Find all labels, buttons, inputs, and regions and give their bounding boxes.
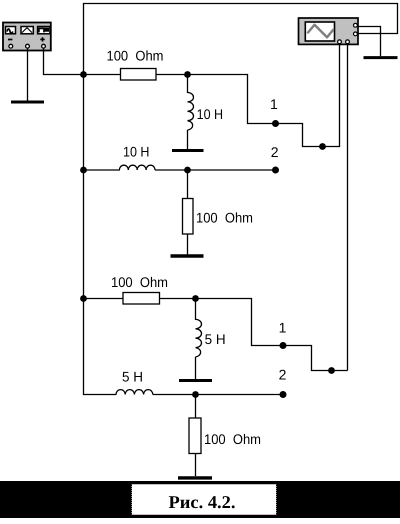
svg-text:1: 1 (279, 319, 287, 335)
svg-text:Рис. 4.2.: Рис. 4.2. (169, 492, 236, 512)
wire: row 2 left lead (84, 169, 120, 171)
resistor R2 100 Ohm (vertical) (183, 199, 194, 235)
junction B (184, 71, 191, 78)
wire: generator common terminal to ground (27, 48, 29, 101)
function generator XFG1 (3, 23, 51, 51)
wire: node 1 to oscilloscope bottom-left terminal (channel A) (276, 44, 340, 147)
junction on channel B wire (328, 367, 335, 374)
junction C (row 3 center) (192, 295, 199, 302)
wire: node A to junction B (row 1) (84, 74, 188, 76)
ground (below L3) (179, 379, 212, 382)
ground (below R2) (171, 254, 204, 257)
svg-text:5 H: 5 H (205, 331, 226, 347)
wire: row 3 to junction C (84, 298, 196, 300)
wire: L1 to ground (187, 130, 189, 149)
caption band (0, 481, 400, 518)
wire: left rail row 2 down to row 3 (83, 170, 85, 299)
caption box (132, 484, 277, 515)
wire: R2 to ground (187, 234, 189, 255)
ground (oscilloscope) (364, 56, 398, 59)
node 2 terminal dot (section 1) (272, 167, 279, 174)
wire: junction B down to L1 (187, 75, 189, 94)
inductor L2 10 H (horizontal) (119, 165, 155, 170)
svg-text:2: 2 (279, 367, 287, 383)
wire: node 1 (section 2) to oscilloscope bottom-right terminal riser (283, 346, 348, 371)
svg-text:10 H: 10 H (197, 106, 224, 122)
wire: generator + output to node A (44, 48, 84, 75)
resistor R3 100 Ohm (123, 293, 160, 305)
junction on channel A wire (319, 143, 326, 150)
node 1 terminal dot (section 2) (280, 342, 287, 349)
junction (row 4 center) (192, 391, 199, 398)
wire: left rail node A down to row 2 (83, 75, 85, 171)
svg-text:100 Ohm: 100 Ohm (107, 48, 164, 64)
node 2 terminal dot (section 2) (280, 391, 287, 398)
svg-text:1: 1 (270, 96, 278, 112)
svg-text:2: 2 (271, 144, 279, 160)
node 1 terminal dot (section 1) (272, 120, 279, 127)
inductor L4 5 H (horizontal) (116, 390, 153, 395)
wire: L3 to ground (195, 357, 197, 379)
resistor R1 100 Ohm (121, 69, 157, 81)
junction (left rail, row 2) (80, 167, 87, 174)
svg-text:5 H: 5 H (122, 368, 143, 384)
junction (row 2 center) (184, 167, 191, 174)
inductor L1 10 H (vertical) (188, 93, 194, 131)
wire: junction B to node 1 of section 1 (188, 75, 276, 124)
svg-text:100 Ohm: 100 Ohm (196, 209, 253, 225)
svg-text:100 Ohm: 100 Ohm (111, 274, 168, 290)
junction node A (80, 71, 87, 78)
wire: R4 to ground (195, 454, 197, 477)
wire: junction C to node 1 of section 2 (196, 299, 284, 346)
inductor L3 5 H (vertical) (196, 319, 202, 356)
resistor R4 100 Ohm (vertical) (189, 418, 201, 454)
wire: node A up and across top to oscilloscope right lower terminal (84, 4, 398, 75)
wire: left rail row 3 down to row 4 corner (84, 299, 117, 395)
oscilloscope XSC1 (299, 18, 359, 44)
svg-text:10 H: 10 H (123, 144, 150, 160)
ground (below L1) (172, 149, 204, 152)
junction (left rail, row 3) (80, 295, 87, 302)
wire: oscilloscope bottom-right terminal down (channel B) (347, 44, 349, 371)
ground (below function generator) (11, 101, 44, 104)
wire: junction C down to L3 (195, 299, 197, 321)
wire: L2 to node 2 (section 1) (155, 169, 276, 171)
wire: oscilloscope ground terminal (358, 27, 381, 57)
wire: row 4 junction down to R4 (195, 395, 197, 419)
wire: row 2 junction down to R2 (187, 170, 189, 199)
ground (below R4) (178, 476, 212, 479)
svg-text:100 Ohm: 100 Ohm (204, 431, 261, 447)
wire: L4 to node 2 (section 2) (153, 394, 283, 396)
